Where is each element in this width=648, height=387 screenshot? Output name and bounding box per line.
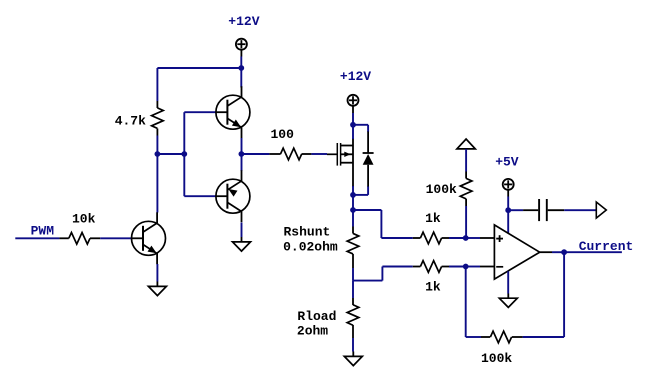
- svg-text:100k: 100k: [481, 351, 512, 366]
- wire rail top horizontal: [157, 67, 241, 69]
- wire R6 to junction J9: [449, 266, 466, 268]
- wire Q2 emitter to junction J4: [241, 138, 243, 154]
- svg-text:+12V: +12V: [340, 69, 371, 84]
- node junction J4: [239, 151, 245, 157]
- op-amp U1 - input mark: [496, 266, 503, 268]
- wire R1 to Q1 base: [100, 237, 131, 239]
- power symbol +5V: [503, 179, 514, 190]
- wire J5 to Q4 drain: [352, 125, 354, 139]
- ground below Q1: [156, 282, 158, 287]
- wire +12V down to junction J5: [352, 113, 354, 125]
- op-amp U1 output stub: [540, 251, 552, 253]
- op-amp U1 + input mark: [496, 238, 503, 240]
- wire tap T2 down to R7: [352, 281, 354, 298]
- node junction J9: [463, 264, 469, 270]
- svg-text:0.02ohm: 0.02ohm: [283, 240, 338, 255]
- resistor R6 1k (body): [420, 261, 441, 273]
- wire J10 to op-amp V+: [507, 210, 509, 233]
- resistor R8 100k (body): [460, 178, 472, 199]
- wire J7 down to R5: [352, 210, 354, 227]
- transistor Q1 NPN: [132, 221, 166, 255]
- ground below Q3: [241, 237, 243, 242]
- wire R8 down to J8: [465, 206, 467, 238]
- wire R4 to junction J8: [449, 237, 466, 239]
- wire J4 to R3: [241, 153, 269, 155]
- wire PWM input: [15, 237, 59, 239]
- transistor Q4 N-MOSFET: [327, 153, 338, 155]
- wire J10 to C1: [508, 209, 523, 211]
- node junction J2: [155, 151, 161, 157]
- svg-text:Rshunt: Rshunt: [284, 224, 331, 239]
- svg-text:+5V: +5V: [495, 154, 519, 169]
- wire R3 to Q4 gate: [311, 153, 327, 155]
- svg-text:2ohm: 2ohm: [297, 323, 328, 338]
- svg-text:Current: Current: [579, 239, 634, 254]
- node junction J8: [463, 235, 469, 241]
- svg-text:100: 100: [271, 127, 295, 142]
- ground below Rload: [352, 352, 354, 357]
- node junction J11: [561, 249, 567, 255]
- wire op-amp output to junction J11: [552, 251, 564, 253]
- resistor R8 100k (leads): [465, 172, 467, 179]
- op-amp U1 body: [494, 225, 539, 279]
- ground below op-amp: [507, 294, 509, 299]
- svg-text:100k: 100k: [426, 182, 457, 197]
- node junction J3: [181, 151, 187, 157]
- resistor R7 Rload (leads): [352, 298, 354, 305]
- wire J2 to J3: [157, 153, 184, 155]
- wire Q3 collector down: [241, 223, 243, 238]
- svg-text:1k: 1k: [425, 211, 441, 226]
- svg-text:4.7k: 4.7k: [115, 113, 146, 128]
- node junction J10: [505, 207, 511, 213]
- wire +12V left down to junction: [240, 57, 242, 69]
- resistor R4 1k (leads): [413, 237, 421, 239]
- power symbol +12V (left): [236, 39, 247, 50]
- svg-text:+12V: +12V: [228, 14, 259, 29]
- wire C1 to output arrow: [564, 209, 596, 211]
- capacitor C1: [523, 209, 538, 211]
- wire J3 up to Q2 base: [183, 112, 185, 154]
- resistor R5 Rshunt (leads): [352, 227, 354, 234]
- op-amp U1 - input stub: [480, 266, 494, 268]
- wire J11 down to R9: [563, 252, 565, 337]
- resistor R3 100 (body): [281, 148, 302, 160]
- svg-text:1k: 1k: [425, 279, 441, 294]
- resistor R9 100k (body): [490, 331, 511, 343]
- wire op-amp V- down: [507, 271, 509, 293]
- resistor R9 100k (leads): [512, 336, 523, 338]
- resistor R4 1k (body): [420, 232, 441, 244]
- wire rail down to R2: [156, 68, 158, 101]
- wire J3 down to Q3 base: [183, 154, 185, 196]
- op-amp U1 + input stub: [480, 237, 494, 239]
- node junction J6: [350, 192, 356, 198]
- resistor R3 100 (leads): [269, 153, 280, 155]
- wire R2 bottom to junction J2: [156, 136, 158, 155]
- wire output net: [564, 251, 622, 253]
- wire Q4 source to junction J6: [352, 186, 354, 195]
- output arrow connector: [596, 202, 606, 218]
- resistor R5 Rshunt (body): [347, 233, 359, 254]
- wire J4 down to Q3 emitter: [241, 154, 243, 171]
- power symbol +12V (MOSFET): [348, 95, 359, 106]
- resistor R2 4.7k (body): [152, 108, 164, 128]
- node junction J1 at +12V rail: [238, 65, 244, 71]
- wire R5 bottom to tap T2: [352, 268, 354, 281]
- svg-text:Rload: Rload: [297, 309, 336, 324]
- resistor R7 Rload (body): [347, 305, 359, 326]
- node junction J5 at Q4 drain: [350, 122, 356, 128]
- wire J5 to D1 cathode: [353, 124, 368, 126]
- resistor R2 4.7k (leads): [156, 101, 158, 108]
- transistor Q2 NPN: [216, 95, 250, 129]
- transistor Q3 PNP: [216, 179, 250, 213]
- svg-text:PWM: PWM: [31, 224, 55, 239]
- wire R7 to ground: [352, 338, 354, 352]
- resistor R1 10k (body): [69, 233, 90, 245]
- wire Q1 emitter down: [156, 264, 158, 282]
- node junction J7 shunt top tap: [350, 207, 356, 213]
- wire J7 tap to R4: [353, 209, 381, 211]
- resistor R1 10k (leads): [59, 237, 68, 239]
- resistor R6 1k (leads): [413, 266, 421, 268]
- wire J6 to J7: [352, 195, 354, 210]
- wire J1 down to Q2 collector: [240, 68, 242, 88]
- wire arrow to R8: [465, 149, 467, 172]
- power arrow above R8: [457, 139, 475, 149]
- wire +5V down to junction J10: [507, 197, 509, 211]
- wire J2 down to Q1 collector: [156, 154, 158, 213]
- wire J9 to op-amp - input: [466, 266, 480, 268]
- wire D1 anode to junction J6: [367, 187, 369, 195]
- wire tap T2 to R6: [353, 280, 382, 282]
- svg-text:10k: 10k: [72, 211, 96, 226]
- wire J8 to op-amp + input: [466, 237, 480, 239]
- diode D1: [367, 132, 369, 154]
- wire R9 to J9: [466, 336, 481, 338]
